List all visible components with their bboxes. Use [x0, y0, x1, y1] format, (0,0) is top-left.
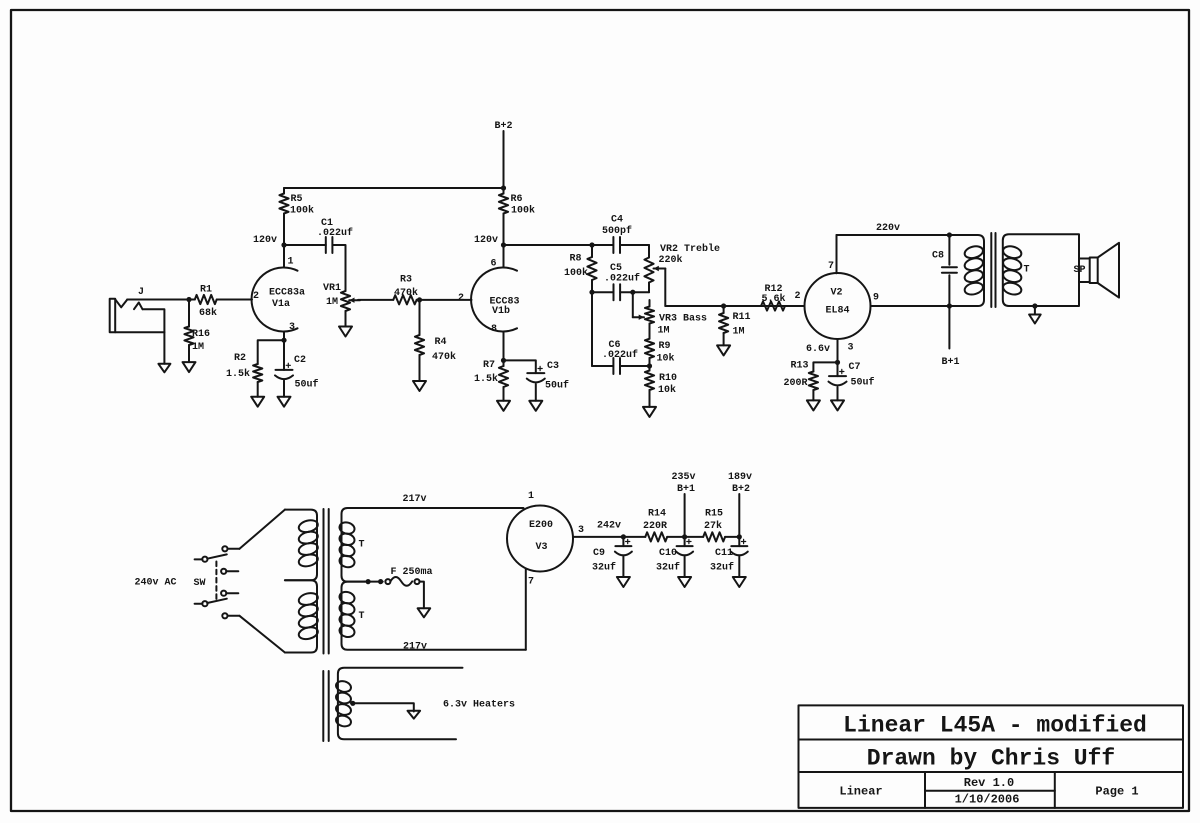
node C8/B+1 junction: [947, 303, 952, 308]
title block frame: [799, 705, 1184, 808]
wire 120v node to C1: [284, 244, 326, 246]
svg-text:B+1: B+1: [941, 357, 959, 368]
wire R13 to ground: [812, 390, 814, 400]
wire V2 cathode pin 3: [837, 339, 839, 362]
node B+1 junction: [682, 534, 687, 539]
wire V1a cathode pin 3: [283, 332, 285, 341]
svg-text:500pf: 500pf: [602, 225, 632, 237]
speaker SP: [1079, 243, 1119, 298]
node R3/R4 junction: [417, 297, 422, 302]
label VR3 Bass: [659, 313, 707, 324]
node B+2 rail junction: [501, 185, 506, 190]
wire C3 to ground: [535, 384, 537, 401]
ground heater: [408, 711, 421, 719]
label C11: [715, 548, 733, 559]
label T HT upper: [358, 539, 364, 550]
ground R16: [183, 362, 196, 372]
wire tone output row: [665, 305, 804, 307]
svg-text:V1b: V1b: [492, 305, 510, 317]
svg-text:3: 3: [847, 342, 853, 353]
label R1: [200, 284, 212, 295]
wire centre tap to fuse: [365, 581, 383, 583]
switch SW spare contact lower: [221, 591, 238, 596]
wire C5 right: [620, 291, 649, 293]
svg-text:VR1: VR1: [323, 283, 341, 294]
node R8/C5 junction: [589, 290, 594, 295]
svg-text:220v: 220v: [876, 223, 900, 234]
wire VR3 to R9: [649, 324, 651, 339]
wire VR2 wiper down: [664, 269, 666, 307]
svg-text:R9: R9: [658, 341, 670, 352]
svg-text:V3: V3: [535, 542, 547, 553]
wire C1 to VR1: [332, 245, 345, 291]
label C4: [611, 214, 623, 225]
title cell Page 1: [1095, 785, 1138, 799]
label 220k: [658, 254, 682, 266]
resistor R4: [415, 335, 424, 355]
label 50uf C3: [545, 379, 569, 391]
svg-text:32uf: 32uf: [592, 561, 616, 573]
svg-text:R7: R7: [483, 360, 495, 371]
ground R10: [643, 407, 656, 417]
capacitor C5: [614, 284, 621, 300]
svg-text:7: 7: [828, 261, 834, 272]
ground C9: [617, 577, 630, 587]
wire VR1 wiper to R3: [358, 299, 393, 301]
core output transformer: [991, 233, 995, 307]
potentiometer VR1: [341, 291, 360, 311]
secondary winding output transformer: [1002, 234, 1079, 306]
node 220v/C8 junction: [947, 232, 952, 237]
svg-text:R11: R11: [732, 312, 750, 323]
label R8: [569, 253, 581, 264]
svg-text:C2: C2: [294, 355, 306, 366]
secondary HT winding upper: [338, 508, 523, 582]
svg-text:1M: 1M: [732, 326, 744, 337]
svg-text:10k: 10k: [658, 384, 676, 396]
tube V2 EL84: [805, 273, 871, 339]
svg-text:SW: SW: [193, 578, 205, 589]
svg-text:R8: R8: [569, 253, 581, 264]
wire HT bottom to V3 pin 7: [525, 569, 527, 650]
svg-text:C5: C5: [610, 263, 622, 274]
wire V3 pin 3 output: [573, 536, 623, 538]
resistor R7: [499, 360, 508, 387]
svg-text:V2: V2: [830, 287, 842, 298]
svg-text:8: 8: [491, 324, 497, 335]
node heater tap: [350, 701, 355, 706]
node tone stack input: [589, 242, 594, 247]
capacitor C6: [613, 358, 620, 374]
svg-text:T: T: [1023, 264, 1029, 275]
wire R16 stub: [188, 300, 190, 327]
label 1M: [192, 342, 204, 353]
pin 6 label V1b: [490, 258, 496, 269]
wire cathode to R13: [813, 362, 837, 371]
wire C5 left: [592, 291, 613, 293]
wire B+2 rail: [284, 187, 504, 189]
wire R2 to ground: [257, 382, 259, 397]
title text Linear L45A - modified: [843, 712, 1147, 738]
resistor R16: [184, 327, 193, 346]
label .022uf C6: [602, 349, 638, 361]
ground R13: [807, 400, 820, 410]
label 1M VR1: [326, 297, 338, 308]
svg-text:Rev 1.0: Rev 1.0: [964, 776, 1014, 790]
ground C7: [831, 400, 844, 410]
label 500pf: [602, 225, 632, 237]
svg-text:R6: R6: [510, 194, 522, 205]
node V1a cathode junction: [281, 338, 286, 343]
label C6: [608, 340, 620, 351]
title cell date 1/10/2006: [955, 793, 1020, 807]
label T output transformer: [1023, 264, 1029, 275]
label R6: [510, 194, 522, 205]
wire C6 right: [620, 365, 649, 367]
svg-text:C4: C4: [611, 214, 623, 225]
node V2 cathode junction: [835, 360, 840, 365]
wire VR3 wiper: [633, 292, 644, 320]
wire B+2 feed: [503, 131, 505, 188]
wire R16 to ground: [188, 345, 190, 362]
label 50uf C2: [294, 378, 318, 390]
svg-text:1M: 1M: [326, 297, 338, 308]
svg-text:10k: 10k: [656, 352, 674, 364]
capacitor C7: [829, 369, 847, 385]
wire primary bottom: [949, 305, 977, 307]
wire cathode to R2: [258, 340, 284, 364]
pin 2 label V1b: [458, 293, 464, 304]
svg-text:3: 3: [578, 525, 584, 536]
ground R4: [413, 381, 426, 391]
label R11: [732, 312, 750, 323]
svg-text:3: 3: [289, 322, 295, 333]
label C8: [932, 250, 944, 261]
label 217v bottom: [403, 641, 427, 652]
svg-text:E200: E200: [529, 520, 553, 531]
label 470k R4: [432, 351, 456, 363]
label VR2 Treble: [660, 243, 720, 255]
svg-text:R15: R15: [705, 508, 723, 519]
tube V1a ECC83a: [252, 268, 298, 332]
svg-text:68k: 68k: [199, 307, 217, 319]
svg-text:.022uf: .022uf: [317, 227, 353, 239]
label R4: [434, 337, 446, 348]
svg-text:C3: C3: [547, 361, 559, 372]
svg-text:1M: 1M: [657, 325, 669, 336]
node R9/R10/C6 junction: [647, 363, 652, 368]
svg-text:9: 9: [873, 292, 879, 303]
label ECC83a: [269, 287, 305, 298]
capacitor C4: [613, 237, 620, 253]
svg-text:50uf: 50uf: [545, 379, 569, 391]
wire cathode to C7: [837, 362, 839, 376]
label .022uf C5: [604, 272, 640, 284]
svg-text:R16: R16: [192, 329, 210, 340]
svg-text:Page 1: Page 1: [1095, 785, 1138, 799]
ground R11: [717, 345, 730, 355]
label R2: [234, 353, 246, 364]
svg-text:1.5k: 1.5k: [226, 368, 250, 380]
wire C6 left: [592, 365, 613, 367]
svg-text:B+2: B+2: [732, 484, 750, 495]
capacitor C10: [676, 539, 693, 555]
label R13: [790, 360, 808, 371]
wire R5 to 120v node: [283, 214, 285, 246]
pin 3 label V2: [847, 342, 853, 353]
label 240v AC: [134, 577, 176, 588]
pin 3 label V3: [578, 525, 584, 536]
svg-text:VR3 Bass: VR3 Bass: [659, 313, 707, 324]
ground C2: [278, 397, 291, 407]
svg-text:1M: 1M: [192, 342, 204, 353]
svg-text:ECC83a: ECC83a: [269, 287, 305, 298]
ground jack sleeve: [158, 364, 170, 373]
label C1: [321, 218, 333, 229]
wire R15 to B+2 node: [725, 536, 739, 538]
wire R4 stub: [419, 300, 421, 335]
wire R11 stub: [723, 306, 725, 313]
node V1b cathode junction: [501, 358, 506, 363]
wire V1b plate to tone stack: [504, 244, 593, 246]
node R11 junction: [721, 303, 726, 308]
title text Drawn by Chris Uff: [867, 745, 1115, 771]
wire C7 to ground: [837, 387, 839, 400]
resistor R11: [719, 313, 728, 333]
svg-text:6.3v Heaters: 6.3v Heaters: [443, 699, 515, 710]
wire C2 to ground: [283, 381, 285, 397]
switch SW pole 2: [195, 599, 228, 619]
label B+1 supply: [677, 484, 695, 495]
svg-text:Linear L45A - modified: Linear L45A - modified: [843, 712, 1147, 738]
svg-text:.022uf: .022uf: [602, 349, 638, 361]
label B+1 output: [941, 357, 959, 368]
wire R10 to ground: [649, 390, 651, 407]
svg-text:R10: R10: [659, 373, 677, 384]
resistor R13: [809, 372, 818, 391]
svg-text:C8: C8: [932, 250, 944, 261]
resistor R9: [645, 339, 654, 358]
label B+2 top: [494, 121, 512, 132]
label 6.3v Heaters: [443, 699, 515, 710]
svg-text:J: J: [138, 287, 144, 298]
svg-text:R3: R3: [400, 274, 412, 285]
wire 220v line: [837, 234, 950, 236]
label 6.6v: [806, 344, 830, 355]
svg-text:32uf: 32uf: [656, 561, 680, 573]
svg-text:100k: 100k: [290, 204, 314, 216]
pin 1 label V3: [528, 491, 534, 502]
svg-text:R1: R1: [200, 284, 212, 295]
label 100k R8: [564, 267, 588, 279]
capacitor C9: [615, 539, 632, 555]
svg-text:T: T: [358, 539, 364, 550]
wire R3 to V1b grid: [417, 299, 472, 301]
svg-text:.022uf: .022uf: [604, 272, 640, 284]
wire V1b cathode pin 8: [503, 332, 505, 361]
label 27k: [704, 520, 722, 532]
title cell Linear: [839, 785, 882, 799]
label 5.6k: [761, 293, 785, 305]
svg-text:217v: 217v: [402, 494, 426, 505]
label C2: [294, 355, 306, 366]
label 10k R9: [656, 352, 674, 364]
tube V3 E200: [507, 506, 573, 572]
svg-text:Drawn by Chris Uff: Drawn by Chris Uff: [867, 745, 1115, 771]
wire B+2 riser: [738, 494, 740, 537]
wire jack shunt to ground: [143, 309, 165, 364]
svg-text:220R: 220R: [643, 521, 667, 532]
resistor R6: [499, 188, 508, 214]
wire C4 to VR2: [620, 244, 649, 246]
svg-text:1: 1: [287, 256, 293, 267]
label EL84: [825, 305, 849, 316]
svg-text:VR2 Treble: VR2 Treble: [660, 243, 720, 255]
label 217v top: [402, 494, 426, 505]
label 220R: [643, 521, 667, 532]
wire B+1 stub: [948, 306, 950, 349]
label C7: [848, 362, 860, 373]
label V2: [830, 287, 842, 298]
svg-text:C9: C9: [593, 548, 605, 559]
svg-text:R13: R13: [790, 360, 808, 371]
label 120v V1b: [474, 235, 498, 246]
wire R1 to V1a grid: [217, 299, 252, 301]
wire node to C4: [592, 244, 613, 246]
svg-text:470k: 470k: [394, 287, 418, 299]
wire R8 to C5 row: [591, 280, 593, 292]
label 220v: [876, 223, 900, 234]
label V3: [535, 542, 547, 553]
label J: [138, 287, 144, 298]
capacitor C8: [942, 235, 957, 306]
wire V2 screen pin 9: [871, 305, 950, 307]
ground VR1: [339, 327, 352, 337]
switch SW pole 1: [195, 546, 228, 562]
label C9: [593, 548, 605, 559]
svg-text:C10: C10: [659, 548, 677, 559]
wire R14 to B+1 node: [667, 536, 684, 538]
wire V2 plate pin 7: [836, 235, 838, 273]
label 189v: [728, 472, 752, 483]
label 68k: [199, 307, 217, 319]
node C9 junction: [621, 534, 626, 539]
svg-text:5.6k: 5.6k: [761, 293, 785, 305]
label R7: [483, 360, 495, 371]
svg-text:200R: 200R: [783, 378, 807, 389]
resistor R12: [761, 301, 785, 310]
wire switch to primary bottom: [228, 616, 285, 653]
wire C11 to ground: [738, 557, 740, 578]
node R1/R16 junction: [186, 297, 191, 302]
ground C3: [529, 401, 542, 411]
capacitor C3: [527, 366, 545, 382]
label 100k R6: [511, 204, 535, 216]
svg-text:R4: R4: [434, 337, 446, 348]
wire jack tip to R1: [127, 299, 195, 301]
pin 9 label V2: [873, 292, 879, 303]
svg-text:100k: 100k: [564, 267, 588, 279]
svg-text:2: 2: [458, 293, 464, 304]
wire C9 to ground: [622, 557, 624, 578]
svg-text:189v: 189v: [728, 472, 752, 483]
resistor R10: [645, 366, 654, 390]
node 120v V1b plate: [501, 242, 506, 247]
svg-text:217v: 217v: [403, 641, 427, 652]
core heater winding: [323, 671, 328, 741]
svg-text:R2: R2: [234, 353, 246, 364]
svg-text:R14: R14: [648, 508, 666, 519]
ground R7: [497, 401, 510, 411]
svg-text:SP: SP: [1073, 265, 1085, 276]
switch SW gang link: [215, 562, 217, 600]
wire cathode to C2: [283, 340, 285, 370]
svg-text:C7: C7: [848, 362, 860, 373]
node B+2 junction: [737, 534, 742, 539]
label 32uf C11: [710, 561, 734, 573]
pin 7 label V2: [828, 261, 834, 272]
label C3: [547, 361, 559, 372]
label 470k R3: [394, 287, 418, 299]
svg-text:235v: 235v: [671, 472, 695, 483]
svg-text:R5: R5: [290, 194, 302, 205]
resistor R1: [195, 295, 217, 304]
wire R4 to ground: [419, 355, 421, 381]
label 32uf C9: [592, 561, 616, 573]
resistor R14: [623, 532, 667, 541]
svg-text:B+1: B+1: [677, 484, 695, 495]
svg-text:50uf: 50uf: [294, 378, 318, 390]
label V1a: [272, 299, 290, 310]
wire VR1 to ground: [345, 311, 347, 327]
label R3: [400, 274, 412, 285]
switch SW spare contact upper: [221, 569, 238, 574]
label E200: [529, 520, 553, 531]
label R5: [290, 194, 302, 205]
node C5/wiper junction: [630, 290, 635, 295]
wire C11 stem: [738, 537, 740, 546]
primary winding power transformer lower half: [285, 580, 319, 652]
pin 7 label V3: [528, 576, 534, 587]
svg-text:7: 7: [528, 576, 534, 587]
svg-text:T: T: [358, 611, 364, 622]
svg-text:1.5k: 1.5k: [474, 373, 498, 385]
label R16: [192, 329, 210, 340]
pin 3 label V1a: [289, 322, 295, 333]
wire R11 to ground: [723, 333, 725, 345]
potentiometer VR2: [644, 245, 665, 292]
wire C10 stem: [684, 537, 686, 546]
wire V1a plate pin 1: [283, 245, 285, 268]
label SP: [1073, 265, 1085, 276]
svg-text:220k: 220k: [658, 254, 682, 266]
svg-text:120v: 120v: [253, 235, 277, 246]
wire fuse to ground: [420, 582, 424, 609]
core power transformer: [324, 509, 329, 654]
primary winding output transformer T: [949, 235, 984, 306]
svg-text:27k: 27k: [704, 520, 722, 532]
resistor R8: [587, 245, 596, 280]
wire C10 to ground: [684, 557, 686, 578]
svg-text:242v: 242v: [597, 520, 621, 531]
resistor R5: [279, 188, 288, 214]
pin 2 label V2: [794, 291, 800, 302]
input jack J: [110, 299, 165, 332]
wire heater tap to ground: [351, 703, 414, 711]
label F 250ma: [390, 567, 432, 578]
label 1.5k: [226, 368, 250, 380]
heater winding 6.3v: [335, 668, 463, 740]
